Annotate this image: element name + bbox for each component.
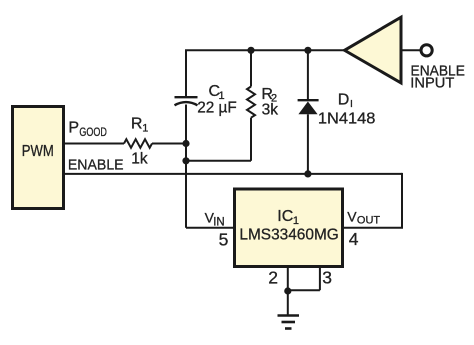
pin 2 bbox=[268, 267, 288, 291]
node D junction dot (D1 top) bbox=[304, 47, 311, 54]
wire ENABLE rail bbox=[64, 173, 402, 175]
node B junction dot bbox=[182, 157, 189, 164]
pin VIN label bbox=[205, 209, 229, 249]
svg-text:1N4148: 1N4148 bbox=[318, 110, 376, 127]
wire R2 bottom to node B bbox=[186, 160, 251, 162]
svg-text:OUT: OUT bbox=[357, 215, 381, 227]
node F junction dot (pins 2-3 tie) bbox=[284, 287, 291, 294]
node C junction dot (R2 top) bbox=[247, 47, 254, 54]
svg-text:V: V bbox=[347, 208, 357, 224]
wire VIN horizontal into IC bbox=[186, 227, 234, 229]
svg-text:R: R bbox=[131, 115, 143, 132]
node A junction dot bbox=[182, 140, 189, 147]
IC U2 LMS33460MG bbox=[235, 189, 343, 267]
svg-text:ENABLE: ENABLE bbox=[68, 156, 124, 173]
pin 3 bbox=[288, 267, 332, 290]
op-amp buffer U1 bbox=[345, 17, 402, 83]
svg-text:P: P bbox=[68, 119, 79, 136]
wire ENABLE rail right down to VOUT bbox=[401, 173, 403, 228]
wire VOUT horizontal bbox=[343, 227, 403, 229]
svg-text:4: 4 bbox=[349, 229, 359, 249]
resistor R2 bbox=[247, 50, 278, 161]
svg-text:2: 2 bbox=[268, 267, 278, 287]
svg-text:5: 5 bbox=[219, 229, 229, 249]
svg-text:3: 3 bbox=[322, 268, 332, 288]
svg-text:GOOD: GOOD bbox=[79, 125, 107, 139]
capacitor C1 bbox=[175, 83, 237, 116]
wire R1 to node A bbox=[152, 143, 186, 145]
svg-text:1k: 1k bbox=[131, 150, 148, 167]
wire buffer output bbox=[402, 49, 422, 51]
svg-text:LMS33460MG: LMS33460MG bbox=[239, 226, 338, 243]
svg-text:PWM: PWM bbox=[22, 143, 54, 160]
svg-text:IC: IC bbox=[277, 208, 293, 225]
svg-text:D: D bbox=[338, 91, 350, 108]
svg-text:INPUT: INPUT bbox=[410, 75, 454, 92]
svg-text:3k: 3k bbox=[262, 102, 279, 119]
diode D1 bbox=[298, 50, 376, 174]
svg-text:IN: IN bbox=[213, 216, 225, 228]
svg-text:1: 1 bbox=[142, 122, 148, 134]
terminal ENABLE INPUT bbox=[410, 45, 465, 92]
wire top rail bbox=[185, 49, 344, 51]
wire C1 bottom through A,B down to VIN row bbox=[185, 105, 187, 228]
node E junction dot (D1 bottom on ENABLE rail) bbox=[304, 170, 311, 177]
PWM block bbox=[13, 107, 64, 209]
ground bbox=[278, 291, 300, 329]
wire vertical C1 branch bbox=[185, 50, 187, 96]
wire PWM PGOOD to R1 bbox=[64, 143, 124, 145]
svg-text:I: I bbox=[350, 98, 353, 110]
svg-text:22 µF: 22 µF bbox=[197, 100, 237, 117]
pin VOUT label bbox=[347, 208, 380, 249]
resistor R1 bbox=[124, 115, 152, 167]
node PGOOD label bbox=[68, 119, 107, 138]
